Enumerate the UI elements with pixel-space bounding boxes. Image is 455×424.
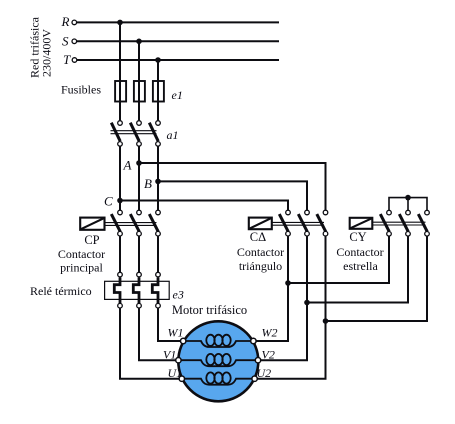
svg-text:Fusibles: Fusibles (61, 83, 101, 97)
label Contactor principal (58, 247, 105, 275)
contactor CY star bridge (389, 198, 427, 210)
wire phase S (77, 40, 279, 42)
fuse e1 pole T (153, 80, 164, 120)
wire CP to relay pole S (138, 236, 140, 272)
fuse e1 pole S (134, 80, 145, 120)
motor M body (178, 321, 258, 401)
svg-text:Relé térmico: Relé térmico (30, 284, 92, 298)
svg-text:U1: U1 (168, 366, 183, 380)
contactor CY coil (350, 218, 373, 229)
svg-text:S: S (62, 34, 69, 49)
wire phase T (77, 59, 279, 61)
svg-text:Contactor: Contactor (58, 247, 105, 261)
wire CP to relay pole T (157, 236, 159, 272)
wire a1 to CP pole S (138, 147, 140, 211)
wire CD2 to V2 (261, 236, 307, 360)
contactor CD coil (249, 218, 272, 230)
svg-text:V1: V1 (163, 348, 176, 362)
svg-text:Contactor: Contactor (237, 245, 284, 259)
svg-text:CY: CY (349, 230, 366, 244)
svg-text:a1: a1 (167, 128, 179, 142)
motor terminal U1 (179, 376, 184, 381)
motor terminal V2 (255, 358, 260, 363)
contactor CD contact 2 (298, 210, 309, 236)
node A junction dot (136, 160, 142, 166)
node C junction dot (117, 198, 123, 204)
contactor CY contact 1 (380, 210, 391, 236)
wire node C to CD contact (120, 201, 288, 211)
wire relay to U1 (120, 308, 179, 379)
wire relay to V1 (139, 308, 176, 360)
junction dot T (155, 57, 161, 63)
motor winding U1-U2 (184, 372, 252, 384)
contactor CY contact 2 (399, 210, 410, 236)
switch a1 pole S (130, 121, 141, 147)
contactor CP contact pole S (130, 210, 141, 236)
svg-text:CΔ: CΔ (250, 230, 266, 244)
svg-text:estrella: estrella (343, 259, 378, 273)
svg-text:Motor trifásico: Motor trifásico (172, 303, 247, 317)
svg-text:principal: principal (60, 261, 103, 275)
label Contactor triangulo (237, 245, 284, 273)
motor terminal V1 (176, 358, 181, 363)
contactor CY mechanical link (372, 222, 425, 225)
node B junction dot (155, 179, 161, 185)
svg-text:triángulo: triángulo (239, 259, 282, 273)
terminal T (72, 58, 77, 63)
wire CY1 bottom (288, 236, 389, 283)
contactor CD contact 1 (279, 210, 290, 236)
svg-text:230/400V: 230/400V (40, 29, 54, 77)
wire T drop to fuse (157, 60, 159, 80)
contactor CP mechanical link (105, 223, 157, 226)
junction dot CD3/CY3 (323, 318, 329, 324)
contactor CP contact pole R (111, 210, 122, 236)
svg-text:B: B (144, 176, 152, 191)
motor winding V1-V2 (181, 354, 255, 366)
svg-text:W2: W2 (262, 326, 278, 340)
wire R drop to fuse (119, 22, 121, 80)
wire CY3 bottom (326, 236, 428, 321)
svg-text:A: A (123, 158, 132, 173)
junction dot S (136, 39, 142, 45)
junction dot CD2/CY2 (304, 300, 310, 306)
contactor CP contact pole T (149, 210, 160, 236)
svg-text:Contactor: Contactor (336, 245, 383, 259)
junction dot R (117, 20, 123, 26)
svg-text:e1: e1 (172, 88, 183, 102)
contactor CD mechanical link (272, 222, 324, 225)
junction dot CD1/CY1 (285, 280, 291, 286)
net label Red trifasica 230/400V (28, 16, 54, 78)
svg-text:T: T (63, 52, 71, 67)
wire CY2 bottom (307, 236, 408, 302)
motor terminal W1 (181, 338, 186, 343)
wire a1 to CP pole R (119, 147, 121, 211)
motor winding W1-W2 (186, 335, 251, 347)
star point junction dot (405, 195, 411, 201)
svg-text:R: R (61, 14, 70, 29)
wire CP to relay pole R (119, 236, 121, 272)
wire node B to CD contact (158, 181, 307, 210)
motor terminal U2 (252, 376, 257, 381)
switch a1 pole T (149, 121, 160, 147)
wire relay to W1 (158, 308, 181, 341)
terminal R (72, 20, 77, 25)
svg-text:C: C (104, 194, 113, 209)
svg-text:CP: CP (84, 233, 99, 247)
svg-text:W1: W1 (168, 326, 184, 340)
switch a1 pole R (111, 121, 122, 147)
thermal relay e3 (105, 272, 170, 308)
wire S drop to fuse (138, 41, 140, 80)
fuse e1 pole R (115, 80, 126, 120)
wire a1 to CP pole T (157, 147, 159, 211)
wire CD1 to W2 (256, 236, 288, 341)
terminal S (72, 39, 77, 44)
label Contactor estrella (336, 245, 383, 273)
motor terminal W2 (251, 338, 256, 343)
svg-text:e3: e3 (173, 288, 184, 302)
contactor CD contact 3 (317, 210, 328, 236)
wire phase R (77, 21, 279, 23)
contactor CY contact 3 (418, 210, 429, 236)
wire CD3 to U2 (257, 236, 325, 378)
wire node A to CD contact (139, 163, 326, 210)
contactor CP coil (80, 218, 104, 230)
switch a1 mechanical link (111, 131, 157, 134)
